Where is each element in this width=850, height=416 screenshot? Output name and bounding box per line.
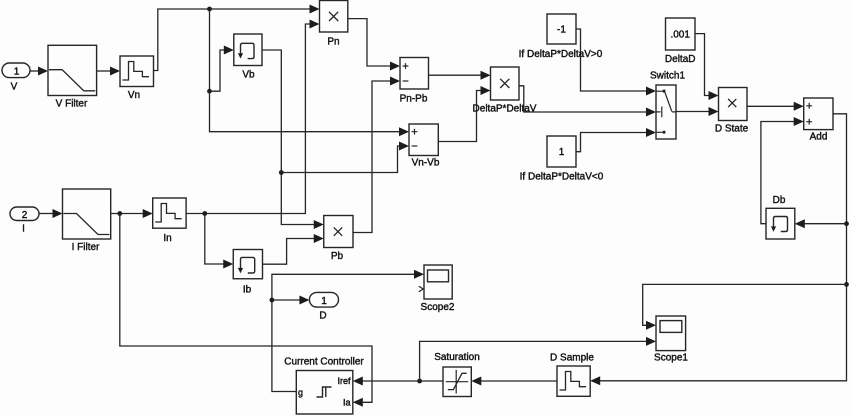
svg-text:Current Controller: Current Controller [284,357,364,368]
junction dot node In [202,211,207,216]
svg-text:D State: D State [715,124,749,135]
svg-text:I: I [22,224,25,235]
wire Pb output to Pn-Pb minus input [353,77,400,233]
wire In to Pn input 2 (node In) [186,20,319,214]
svg-text:Vb: Vb [242,70,255,81]
junction dot Add output to Scope1 [844,282,849,287]
block Pn-Pb sum [400,58,429,105]
svg-text:Ib: Ib [243,285,252,296]
block Scope2 [419,265,455,313]
block D State product [715,88,749,135]
wire Saturation branch to Scope1 input 2 [420,337,656,381]
block Ib memory [233,250,262,296]
block Db memory [766,195,795,239]
wire Vn branch to Vb input [210,46,234,92]
wire branch to Scope1 input 1 [643,284,847,329]
wire Vn branch down to Vn-Vb plus input [210,9,410,136]
svg-text:Scope2: Scope2 [421,302,455,313]
wire I port to I Filter [39,209,63,218]
svg-text:1: 1 [321,296,327,307]
block Add sum [804,98,833,143]
constant 1 [520,136,604,183]
wire Switch1 output to D State input 2 [676,107,719,116]
block Vb memory [234,34,262,81]
block Scope1 [654,316,688,364]
wire In branch to Ib input [205,214,233,269]
block DeltaP*DeltaV product [473,67,537,115]
svg-text:Scope1: Scope1 [654,353,688,364]
block Vn sample [120,56,154,101]
wire Ib output to Pb input 2 [263,234,324,264]
block Saturation [434,352,480,397]
wire Vn to Pn input 1 (node Vn) [154,5,320,71]
svg-text:If DeltaP*DeltaV>0: If DeltaP*DeltaV>0 [519,49,603,60]
junction dot node D [270,298,275,303]
svg-text:Ia: Ia [343,398,351,408]
svg-text:.001: .001 [670,30,690,41]
wire V port to V Filter [30,67,49,76]
wire constant 1 to Switch1 input 3 [576,128,656,152]
svg-text:1: 1 [559,147,565,158]
input port 1 V [2,63,30,93]
wire D State output to Add input 1 [747,102,804,111]
block In sample [153,198,186,244]
svg-text:D Sample: D Sample [550,353,594,364]
wire Add output down right side to D Sample input [590,114,846,386]
block Switch1 [650,71,685,140]
input port 2 I [10,207,39,235]
junction dot node Vn top [207,7,212,12]
svg-text:DeltaD: DeltaD [665,54,696,65]
junction dot node I [117,211,122,216]
svg-text:Pn: Pn [327,37,339,48]
svg-text:D: D [319,311,326,322]
svg-text:In: In [163,233,171,244]
svg-text:-1: -1 [557,25,566,36]
svg-text:V Filter: V Filter [56,99,88,110]
block V Filter [48,45,97,109]
block Pn product [320,1,348,48]
svg-text:Switch1: Switch1 [650,71,685,82]
wire Vb output to Pb input 1 (node Vb) [262,50,324,229]
wire D Sample output to Saturation input [471,377,557,386]
svg-text:Pn-Pb: Pn-Pb [400,94,428,105]
junction dot Add output to Db [844,221,849,226]
wire Pn-Pb output to DeltaP*DeltaV input 1 [429,71,491,80]
wire branch to Db input (right side) [795,219,847,228]
wire Pn output to Pn-Pb plus input [348,19,400,71]
constant DeltaD .001 [665,18,696,65]
wire DeltaP*DeltaV output to Switch1 input 2 [519,86,656,117]
block Pb product [324,216,353,263]
wire Vb branch to Vn-Vb minus input [281,142,409,173]
wire Vn-Vb output to DeltaP*DeltaV input 2 [438,86,490,142]
output port 1 D [309,292,338,321]
svg-text:Add: Add [810,132,828,143]
junction dot node Vb [279,170,284,175]
svg-text:Db: Db [773,195,786,206]
wire constant -1 to Switch1 input 1 [576,29,656,96]
svg-text:Vn: Vn [128,90,140,101]
svg-text:g: g [298,388,303,398]
junction dot Saturation output [417,379,422,384]
svg-text:I Filter: I Filter [72,242,100,253]
block I Filter [63,189,111,253]
wire V Filter to Vn [97,67,120,76]
wire branch to D output port [272,296,310,305]
block Vn-Vb sum [409,124,440,169]
wire I Filter to In (node I) [111,209,153,218]
wire DeltaD constant to D State input 1 [695,34,719,100]
constant -1 [519,14,603,60]
wire Current Controller g output to Scope2 (node D) [272,270,424,392]
svg-text:DeltaP*DeltaV: DeltaP*DeltaV [473,104,537,115]
junction dot Vn branch to Vb [207,89,212,94]
svg-text:Iref: Iref [337,376,351,386]
wire I branch down to Current Controller Ia input [120,214,372,407]
svg-text:V: V [11,82,18,93]
svg-text:If DeltaP*DeltaV<0: If DeltaP*DeltaV<0 [520,172,604,183]
wire Db output up to Add input 2 [761,117,804,224]
svg-text:2: 2 [22,210,28,221]
svg-text:Vn-Vb: Vn-Vb [412,158,440,169]
svg-text:1: 1 [14,67,20,78]
svg-text:Pb: Pb [331,251,344,262]
block D Sample [550,353,594,397]
wire Saturation output to Current Controller Iref input [353,377,443,386]
block Current Controller subsystem [284,357,364,415]
svg-text:Saturation: Saturation [434,352,480,363]
